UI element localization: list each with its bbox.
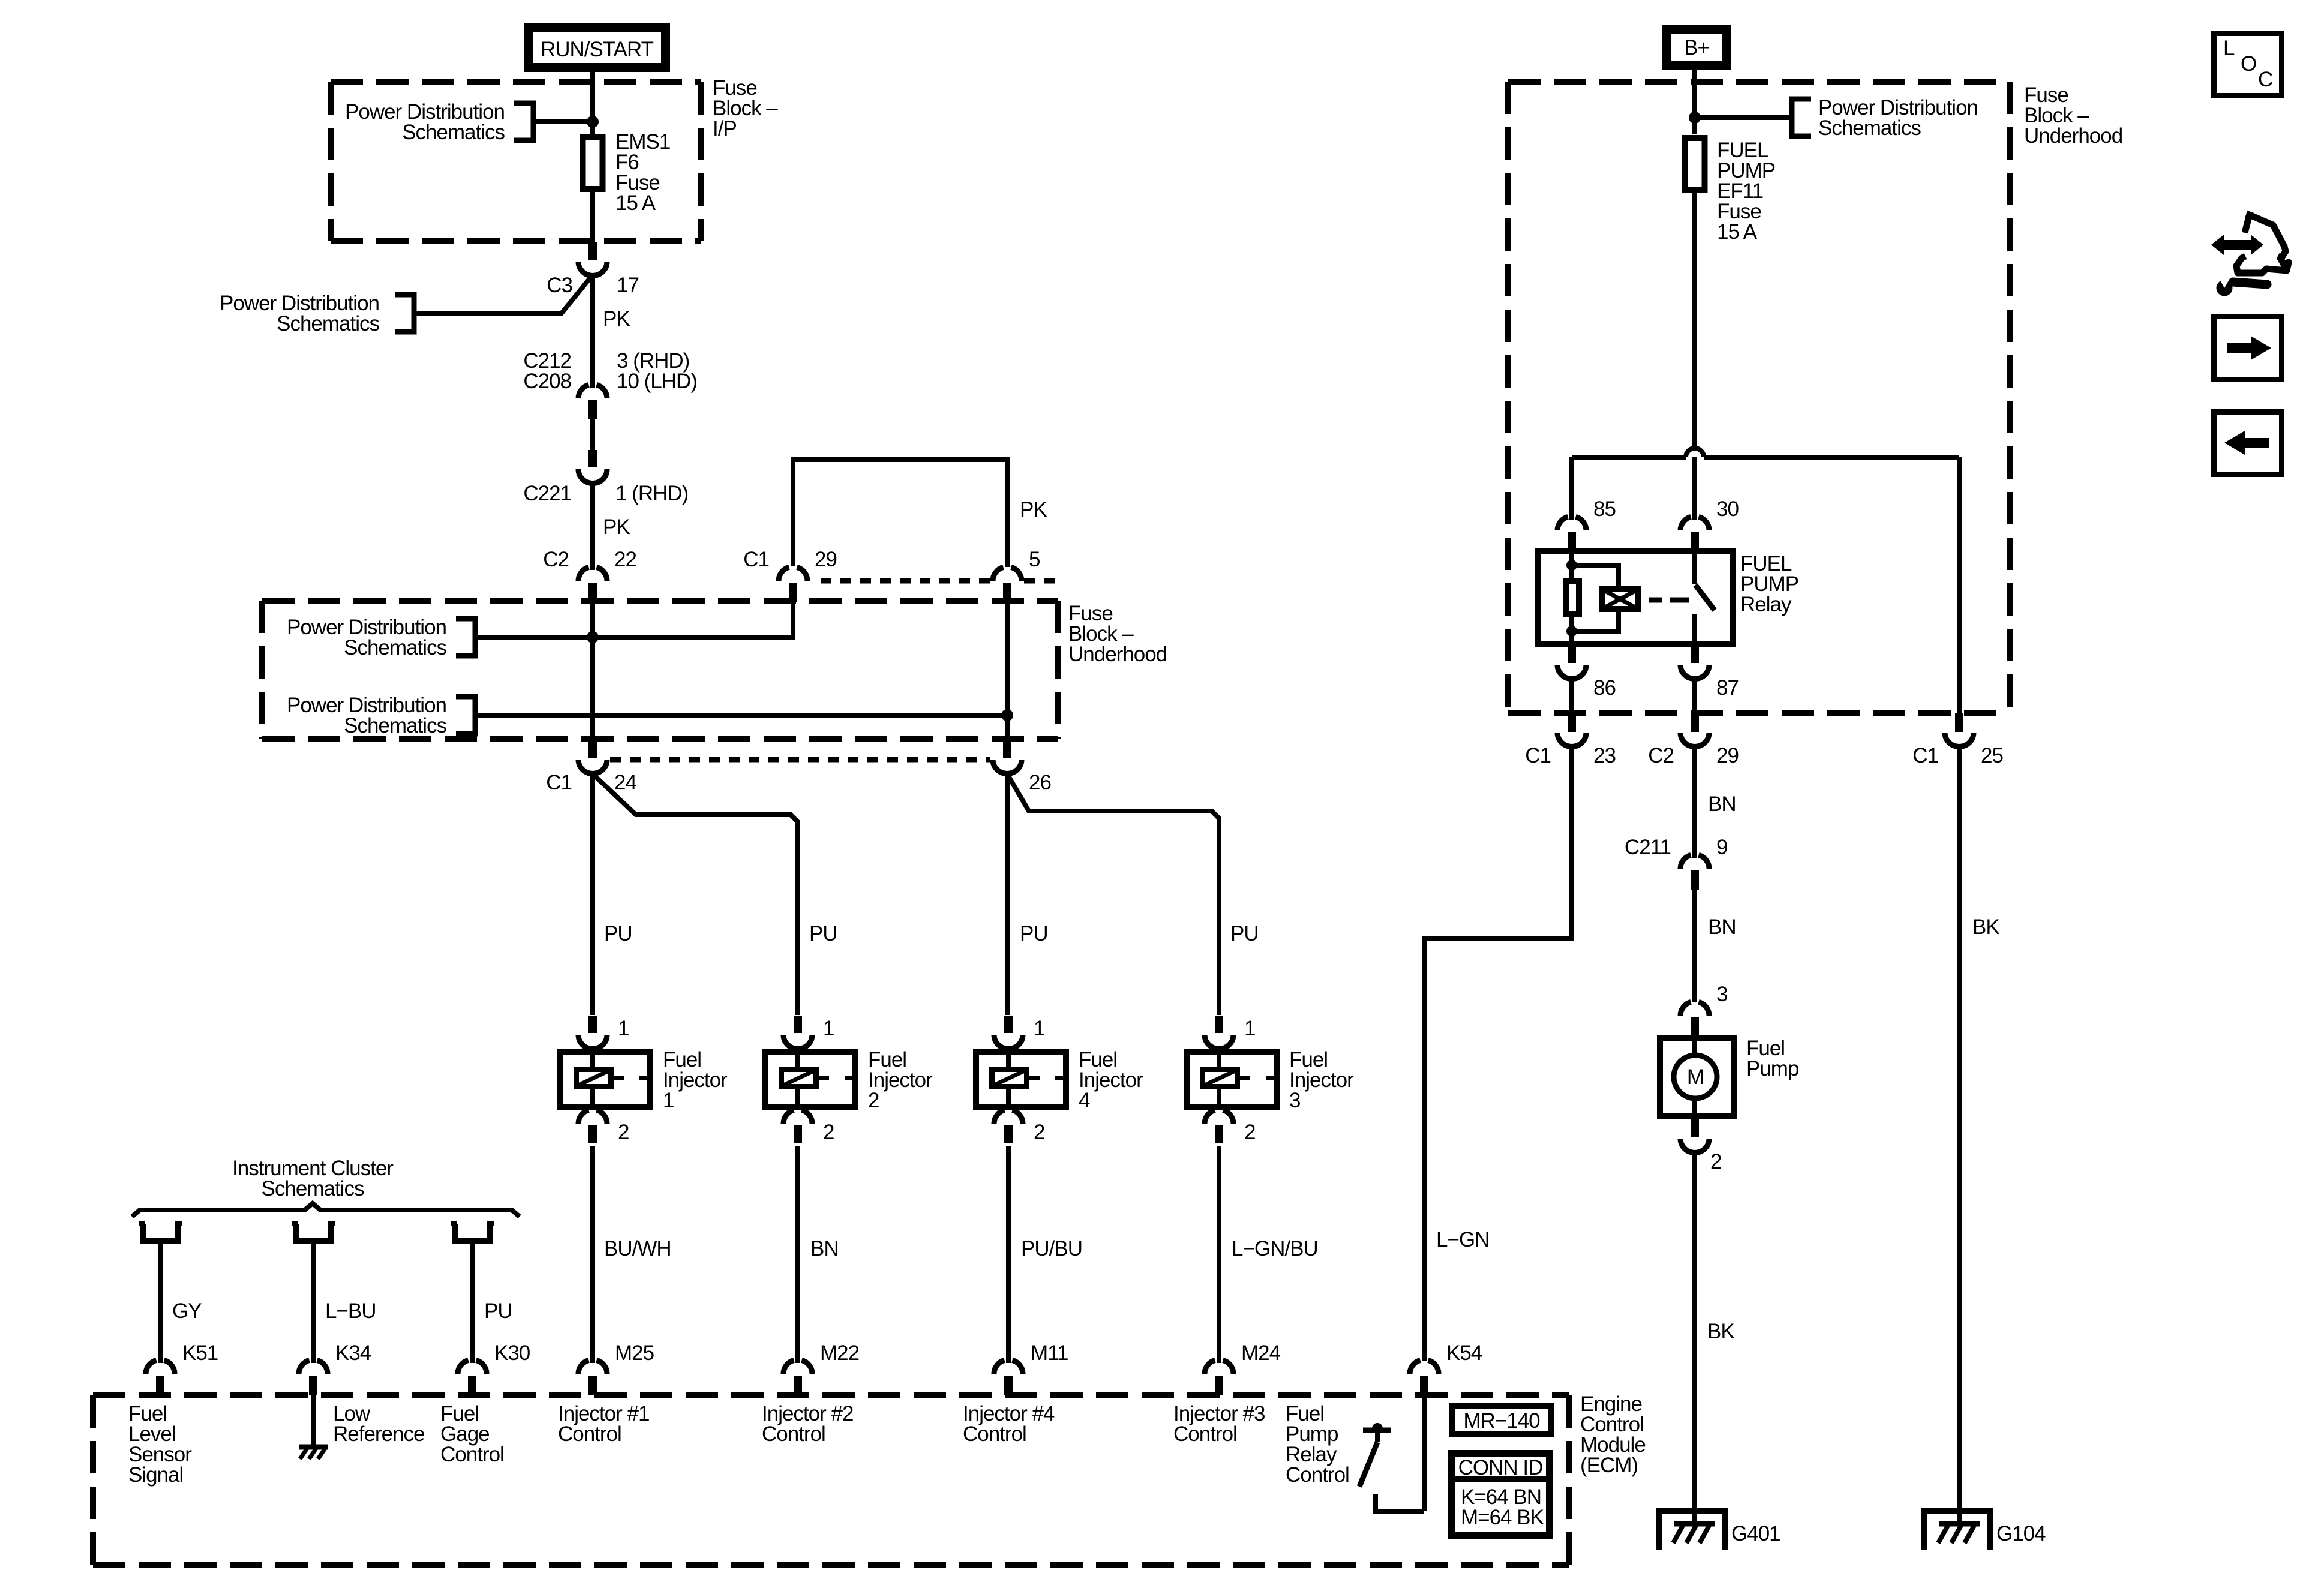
svg-text:23: 23 [1593,744,1616,767]
svg-text:5: 5 [1029,548,1040,571]
svg-text:C1: C1 [1912,744,1938,767]
svg-text:Underhood: Underhood [2024,124,2122,148]
svg-text:PU: PU [809,922,837,945]
svg-text:BN: BN [810,1237,839,1260]
svg-text:Control: Control [1173,1422,1237,1446]
svg-text:1: 1 [1034,1017,1044,1040]
svg-text:I/P: I/P [713,117,737,140]
svg-text:1: 1 [663,1089,674,1112]
svg-text:86: 86 [1593,676,1616,700]
svg-text:BK: BK [1972,915,1999,939]
svg-text:PU: PU [484,1299,512,1323]
svg-text:Relay: Relay [1740,593,1792,616]
svg-text:PU: PU [1020,922,1048,945]
svg-text:K30: K30 [494,1341,530,1365]
svg-text:3: 3 [1289,1089,1300,1112]
svg-text:PU: PU [1230,922,1259,945]
svg-text:2: 2 [868,1089,879,1112]
svg-text:K34: K34 [335,1341,371,1365]
svg-text:C2: C2 [543,548,569,571]
svg-text:Schematics: Schematics [262,1177,364,1200]
svg-text:C221: C221 [523,482,571,505]
svg-text:87: 87 [1716,676,1739,700]
svg-text:1: 1 [618,1017,629,1040]
svg-text:C1: C1 [546,771,572,794]
svg-text:G401: G401 [1731,1522,1780,1545]
svg-text:BN: BN [1708,792,1736,816]
svg-text:Schematics: Schematics [402,121,505,144]
svg-text:29: 29 [815,548,837,571]
svg-text:C3: C3 [547,274,572,297]
svg-text:M25: M25 [615,1341,654,1365]
svg-text:Schematics: Schematics [1818,116,1921,140]
svg-text:M: M [1687,1065,1704,1089]
svg-text:Control: Control [558,1422,621,1446]
svg-text:O: O [2241,52,2256,76]
svg-text:Schematics: Schematics [344,714,446,737]
svg-text:22: 22 [614,548,636,571]
svg-text:G104: G104 [1996,1522,2046,1545]
svg-text:85: 85 [1593,497,1616,521]
svg-text:Schematics: Schematics [344,636,446,659]
svg-text:3: 3 [1716,983,1727,1006]
svg-text:Control: Control [440,1443,504,1466]
svg-text:Pump: Pump [1746,1057,1798,1080]
svg-text:C1: C1 [1525,744,1551,767]
svg-text:M=64 BK: M=64 BK [1461,1506,1544,1529]
svg-text:PK: PK [1020,498,1047,521]
svg-text:M24: M24 [1241,1341,1281,1365]
svg-text:2: 2 [1034,1121,1044,1144]
svg-text:15 A: 15 A [1717,220,1758,244]
svg-text:C211: C211 [1625,836,1671,859]
svg-text:K54: K54 [1446,1341,1482,1365]
svg-text:BU/WH: BU/WH [604,1237,671,1260]
svg-text:2: 2 [1710,1150,1721,1173]
svg-text:29: 29 [1716,744,1739,767]
svg-text:30: 30 [1716,497,1739,521]
svg-text:PU: PU [604,922,632,945]
svg-text:Control: Control [963,1422,1026,1446]
svg-text:CONN ID: CONN ID [1458,1456,1543,1479]
svg-text:Control: Control [762,1422,825,1446]
svg-text:BK: BK [1707,1320,1734,1343]
svg-text:L−GN: L−GN [1436,1228,1489,1251]
svg-text:M11: M11 [1031,1341,1068,1365]
svg-text:Reference: Reference [333,1422,424,1446]
svg-text:2: 2 [618,1121,629,1144]
svg-text:C1: C1 [743,548,769,571]
svg-text:4: 4 [1079,1089,1090,1112]
svg-text:B+: B+ [1684,36,1709,59]
svg-text:17: 17 [617,274,639,297]
svg-text:PK: PK [603,307,630,331]
svg-text:K51: K51 [182,1341,218,1365]
svg-text:(ECM): (ECM) [1580,1454,1638,1477]
svg-text:L: L [2223,37,2235,60]
svg-text:PU/BU: PU/BU [1021,1237,1082,1260]
svg-text:C208: C208 [523,370,571,393]
svg-text:M22: M22 [820,1341,859,1365]
svg-text:C: C [2258,68,2272,91]
svg-text:BN: BN [1708,915,1736,939]
svg-text:15 A: 15 A [615,191,656,215]
svg-text:1: 1 [1244,1017,1255,1040]
svg-text:Schematics: Schematics [277,312,379,335]
svg-text:PK: PK [603,515,630,539]
svg-text:MR−140: MR−140 [1463,1409,1540,1433]
svg-text:26: 26 [1029,771,1051,794]
svg-text:9: 9 [1716,836,1727,859]
svg-text:L−BU: L−BU [325,1299,376,1323]
svg-text:C2: C2 [1648,744,1674,767]
svg-text:2: 2 [1244,1121,1255,1144]
svg-text:Control: Control [1286,1463,1349,1487]
svg-text:L−GN/BU: L−GN/BU [1232,1237,1318,1260]
svg-text:GY: GY [172,1299,202,1323]
svg-text:25: 25 [1981,744,2003,767]
svg-text:2: 2 [823,1121,834,1144]
svg-text:Signal: Signal [128,1463,183,1487]
svg-text:1 (RHD): 1 (RHD) [615,482,688,505]
svg-text:Underhood: Underhood [1068,643,1167,666]
svg-text:RUN/START: RUN/START [541,38,654,61]
svg-text:10 (LHD): 10 (LHD) [617,370,697,393]
svg-text:1: 1 [823,1017,834,1040]
svg-text:24: 24 [614,771,636,794]
